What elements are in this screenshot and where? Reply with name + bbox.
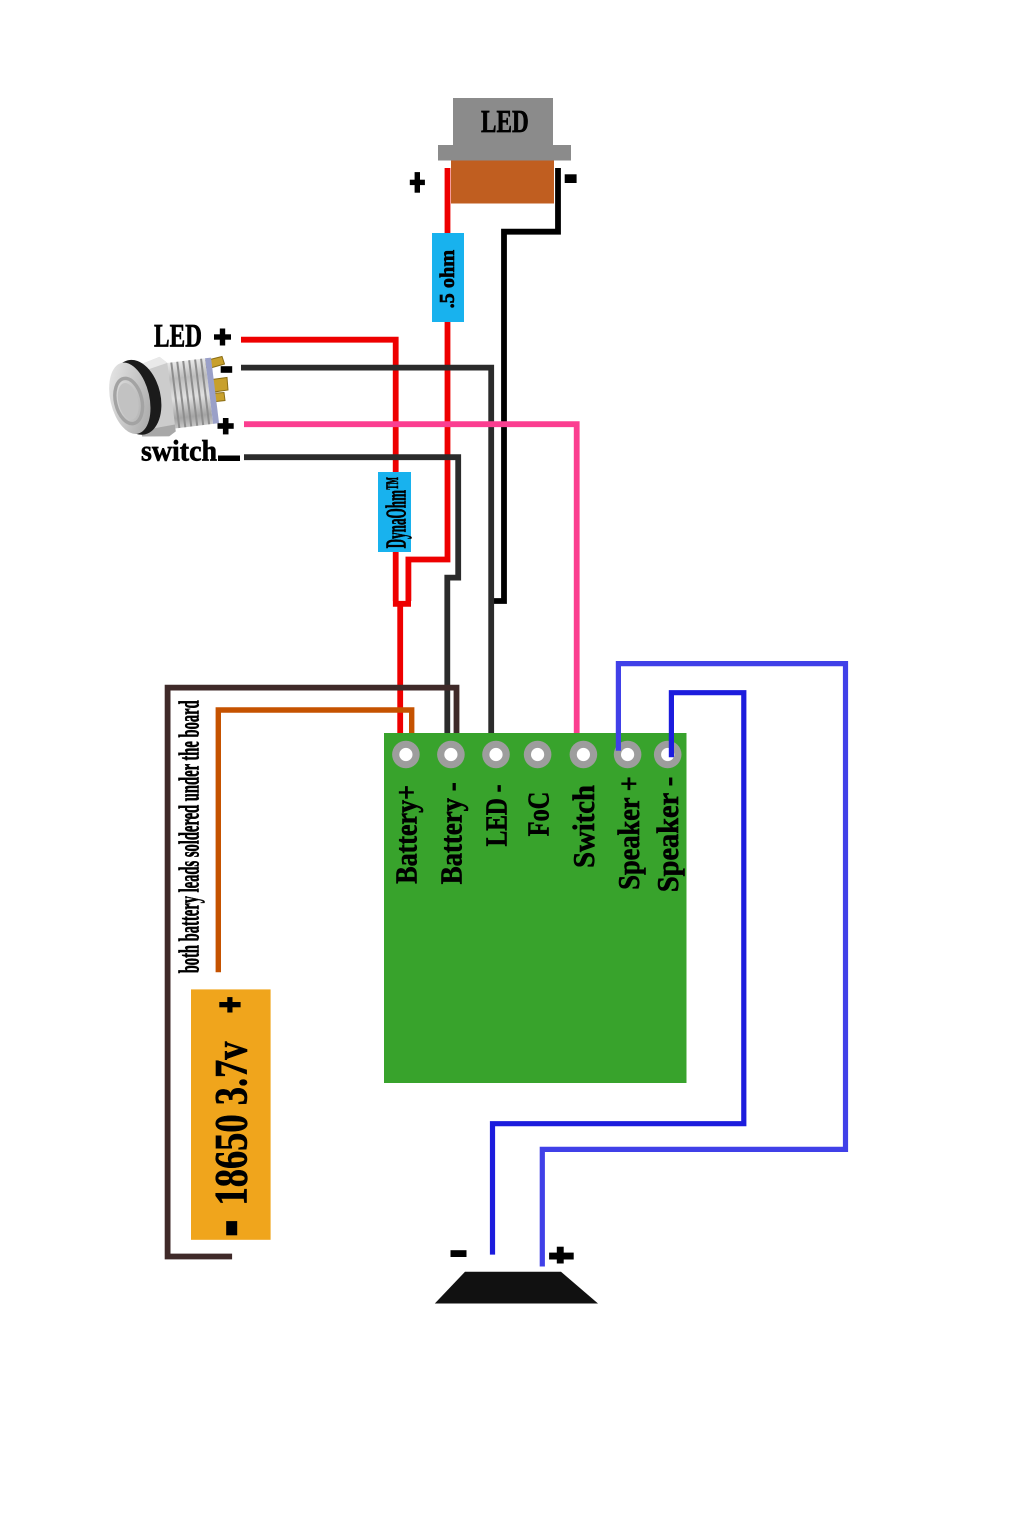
speaker (black trapezoid)	[435, 1272, 598, 1304]
svg-text:Speaker -: Speaker -	[650, 777, 685, 892]
svg-text:LED -: LED -	[479, 785, 514, 847]
svg-text:switch: switch	[141, 435, 217, 468]
battery plus sign	[219, 997, 240, 1012]
svg-text:both battery leads soldered un: both battery leads soldered under the bo…	[175, 700, 206, 973]
plus sign at LED module anode	[410, 172, 425, 193]
pad Speaker+	[614, 741, 642, 769]
plus sign for switch LED +	[214, 329, 231, 346]
svg-text:Battery+: Battery+	[389, 785, 424, 884]
svg-text:18650 3.7v: 18650 3.7v	[206, 1041, 258, 1205]
pad Switch	[570, 741, 598, 769]
threaded barrel	[153, 358, 213, 430]
wire: red junction to Battery+ pad	[393, 601, 411, 607]
speaker minus sign	[451, 1250, 467, 1257]
pad FoC	[524, 741, 552, 769]
pad Battery-	[437, 741, 465, 769]
plus sign for switch +	[218, 418, 234, 434]
speaker plus sign	[549, 1247, 574, 1264]
wire: black from LED module - down	[491, 168, 558, 601]
wire: blue from Speaker- pad to speaker - terminal	[493, 693, 744, 1255]
wire: dark brown frame from battery - to board Battery- pad	[168, 688, 457, 1257]
svg-text:LED: LED	[481, 103, 529, 139]
minus sign for switch LED -	[221, 366, 233, 373]
hex nut	[133, 356, 176, 440]
DynaOhm resistor (cyan box)	[378, 472, 411, 552]
pad Battery+	[392, 741, 420, 769]
minus sign at LED module cathode	[565, 174, 577, 183]
circuit board (green)	[384, 733, 687, 1083]
svg-text:DynaOhm™: DynaOhm™	[381, 477, 413, 549]
wire: pink from switch + to board Switch pad	[244, 424, 577, 755]
gold pins	[204, 357, 228, 403]
wire: red from switch LED+ to DynaOhm and down	[241, 340, 396, 601]
resistor .5 ohm (cyan box)	[432, 233, 464, 322]
rubber gasket ring	[105, 355, 169, 440]
svg-text:LED: LED	[154, 319, 202, 355]
wire: red from LED module + down through .5 ohm resistor	[408, 168, 447, 601]
battery minus sign	[226, 1221, 237, 1235]
LED module flange (gray)	[438, 145, 571, 161]
svg-text:FoC: FoC	[520, 792, 555, 836]
LED module body (gray)	[453, 98, 553, 145]
svg-text:.5 ohm: .5 ohm	[435, 249, 459, 308]
svg-text:Switch: Switch	[566, 785, 601, 868]
svg-text:Battery -: Battery -	[434, 782, 469, 884]
wire: orange from battery + to board Battery+ pad	[218, 710, 411, 972]
wire: blue from Speaker+ pad to speaker + terminal	[542, 664, 845, 1267]
underscore sign for switch -	[218, 456, 240, 462]
pad LED-	[482, 741, 510, 769]
button face	[103, 359, 157, 439]
battery 18650 (amber box)	[191, 989, 271, 1239]
wire: black from switch - to board Battery- pad	[244, 457, 458, 753]
svg-text:Speaker +: Speaker +	[611, 776, 646, 890]
pad Speaker-	[654, 741, 682, 769]
wire: black from switch LED- to board LED- pad	[241, 368, 491, 755]
LED module heatsink (brown)	[451, 161, 554, 204]
